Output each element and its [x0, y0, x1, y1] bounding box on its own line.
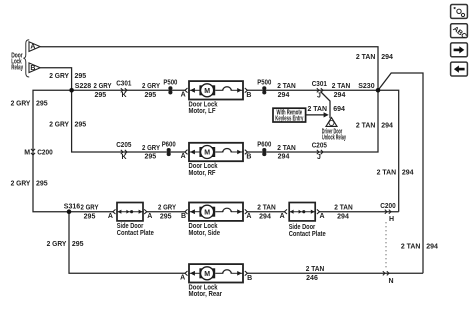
svg-text:S228: S228 [75, 83, 91, 90]
wire: S316 down to rear motor row [69, 212, 185, 274]
svg-text:C205: C205 [116, 142, 131, 149]
svg-text:2 GRY: 2 GRY [49, 73, 69, 80]
svg-text:Motor, LF: Motor, LF [189, 108, 217, 115]
label 2 TAN 294 on C200 drop [377, 169, 414, 176]
svg-text:295: 295 [144, 92, 156, 99]
door lock motor rear [189, 264, 244, 298]
door lock relay label [11, 52, 23, 71]
wire: contact plate to side motor [147, 211, 185, 213]
label 2 TAN 294 (C301 to S230) [332, 83, 351, 99]
svg-text:B: B [181, 213, 186, 220]
svg-text:2 GRY: 2 GRY [47, 241, 67, 248]
chevron rear motor right [245, 271, 248, 276]
svg-text:A: A [319, 213, 324, 220]
svg-text:Contact Plate: Contact Plate [117, 230, 154, 237]
svg-text:694: 694 [333, 106, 345, 113]
svg-text:246: 246 [306, 275, 318, 282]
door lock motor side [189, 203, 244, 237]
svg-text:2 GRY: 2 GRY [11, 100, 31, 107]
svg-text:2 GRY: 2 GRY [49, 121, 69, 128]
connector P600 (RF right) [257, 141, 271, 156]
label 2 GRY 295 (S228 to C301) [94, 83, 112, 99]
triangle connector A (door lock relay) [29, 42, 40, 52]
connector P500 (LF left) [163, 80, 177, 95]
junction S316 [67, 209, 72, 214]
wire: S230 diagonal branch to far right drop [378, 73, 423, 273]
svg-text:J: J [317, 154, 321, 161]
connector C200 pin H [380, 203, 396, 223]
svg-text:A: A [280, 213, 285, 220]
svg-text:294: 294 [334, 92, 346, 99]
svg-text:294: 294 [337, 213, 349, 220]
label 2 GRY 295 (S228 down branch) [49, 121, 86, 128]
svg-text:P600: P600 [257, 141, 271, 148]
svg-text:Unlock Relay: Unlock Relay [322, 135, 346, 142]
label 2 GRY 295 (S316 down branch) [47, 241, 84, 248]
label 2 GRY 295 (S316 to plate) [81, 205, 99, 221]
svg-text:B: B [246, 92, 251, 99]
label 2 TAN 294 (side motor to plate 2) [257, 205, 276, 221]
svg-text:2 GRY: 2 GRY [158, 205, 176, 212]
label 2 TAN 694 [308, 106, 345, 113]
svg-text:A: A [181, 91, 186, 98]
callout arrow [306, 112, 329, 117]
svg-text:A: A [147, 213, 152, 220]
wire: LF motor pin B to S230 [247, 89, 378, 91]
svg-text:2 TAN: 2 TAN [277, 83, 296, 90]
svg-text:295: 295 [75, 73, 87, 80]
svg-text:A: A [180, 275, 185, 282]
driver door unlock relay triangle [322, 118, 346, 142]
label 2 GRY 295 (C205 to P600) [142, 145, 160, 161]
chevron plate1 left [113, 209, 116, 214]
connector C301 pin K (LF row) [116, 80, 131, 99]
label 2 GRY 295 (C301 to P500) [142, 83, 160, 99]
wire: S228 to door lock motor LF pin A [72, 89, 185, 91]
wire: S228 down branch to RF motor row [72, 90, 185, 152]
chevron side motor left [185, 209, 188, 214]
svg-text:Keyless Entry: Keyless Entry [275, 116, 303, 123]
label 2 GRY 295 (plate to side motor) [158, 205, 176, 221]
svg-text:S230: S230 [358, 83, 374, 90]
svg-text:K: K [121, 154, 126, 161]
svg-text:J: J [317, 92, 321, 99]
svg-text:2 TAN: 2 TAN [306, 266, 325, 273]
chevron at RF motor pin B [245, 150, 248, 155]
svg-text:294: 294 [381, 122, 393, 129]
svg-text:2 GRY: 2 GRY [142, 145, 160, 152]
label 2 TAN 294 below S230 [356, 122, 393, 129]
svg-text:B: B [246, 154, 251, 161]
svg-text:C200: C200 [380, 203, 396, 210]
toolbar icon zoom circles [451, 5, 468, 19]
svg-text:C200: C200 [37, 149, 53, 156]
svg-text:H: H [389, 216, 394, 223]
svg-text:B: B [30, 65, 35, 72]
chevron side motor right [245, 209, 248, 214]
svg-text:N: N [388, 278, 393, 285]
junction S230 [376, 88, 381, 93]
svg-text:295: 295 [36, 181, 48, 188]
label 2 GRY 295 (left branch upper) [11, 100, 48, 107]
door lock motor RF [189, 143, 244, 177]
svg-text:S316: S316 [64, 204, 80, 211]
dashed line C200 H to N [385, 222, 387, 270]
wire: S316 row to side contact plate [69, 211, 113, 213]
svg-text:2 TAN: 2 TAN [332, 83, 351, 90]
svg-text:2 GRY: 2 GRY [94, 83, 112, 90]
wire: RF motor pin B up to S230 [247, 90, 378, 152]
label 2 GRY 295 (left branch lower) [11, 181, 48, 188]
svg-text:A: A [108, 213, 113, 220]
svg-text:294: 294 [381, 54, 393, 61]
wire: rear motor pin B to far right riser [247, 272, 423, 274]
wire: second contact plate to C200 H junction [320, 211, 399, 213]
svg-text:295: 295 [84, 213, 96, 220]
connector P600 (RF left) [162, 141, 176, 156]
chevron at LF motor pin A [185, 88, 188, 93]
toolbar icon arrow left [451, 62, 468, 76]
svg-text:P500: P500 [163, 80, 177, 87]
svg-text:C205: C205 [312, 143, 327, 150]
label 2 TAN 294 (RF right) [277, 145, 296, 161]
svg-text:295: 295 [144, 154, 156, 161]
svg-text:2 TAN: 2 TAN [277, 145, 296, 152]
wire: C301 J branch to driver door unlock relay [321, 92, 331, 119]
side door contact plate 1 [117, 203, 154, 237]
svg-text:A: A [246, 213, 251, 220]
svg-text:2 TAN: 2 TAN [334, 205, 353, 212]
connector P500 (LF right) [257, 80, 271, 95]
svg-text:Motor, Rear: Motor, Rear [189, 291, 223, 298]
junction S228 [69, 88, 74, 93]
svg-text:2 TAN: 2 TAN [356, 122, 376, 129]
toolbar icon abc [451, 24, 468, 41]
svg-text:Relay: Relay [11, 65, 23, 72]
svg-text:Contact Plate: Contact Plate [289, 231, 326, 238]
chevron rear motor left [185, 271, 188, 276]
svg-text:294: 294 [278, 154, 290, 161]
connector C301 pin J (LF row) [312, 81, 327, 99]
label 2 TAN 294 far right riser [401, 244, 438, 251]
svg-text:295: 295 [36, 100, 48, 107]
svg-text:A: A [30, 44, 35, 51]
chevron plate1 right [144, 209, 147, 214]
svg-text:295: 295 [72, 241, 84, 248]
door lock relay brace [23, 40, 29, 77]
wire: side motor to second contact plate [247, 211, 284, 213]
svg-text:2 TAN: 2 TAN [401, 244, 421, 251]
wire: S230 right branch down to C200 H [378, 90, 399, 211]
chevron at LF motor pin B [245, 88, 248, 93]
svg-text:2 GRY: 2 GRY [11, 181, 31, 188]
svg-text:294: 294 [278, 92, 290, 99]
svg-text:M: M [24, 149, 30, 156]
svg-text:Motor, Side: Motor, Side [189, 230, 221, 237]
connector C200 pin M [24, 149, 53, 156]
svg-text:295: 295 [160, 213, 172, 220]
svg-text:P600: P600 [162, 141, 176, 148]
svg-text:Motor, RF: Motor, RF [189, 170, 217, 177]
svg-text:A: A [181, 153, 186, 160]
door lock motor LF [189, 81, 244, 115]
toolbar icon arrow right [451, 43, 468, 57]
connector C205 pin J (RF row) [312, 143, 327, 161]
label 2 TAN 294 top vertical [356, 54, 393, 61]
svg-text:2 TAN: 2 TAN [257, 205, 276, 212]
svg-text:294: 294 [426, 244, 438, 251]
svg-text:294: 294 [402, 169, 414, 176]
label 2 TAN 294 (plate 2 to C200) [334, 205, 353, 221]
svg-text:2 GRY: 2 GRY [81, 205, 99, 212]
chevron plate2 right [317, 209, 320, 214]
svg-text:295: 295 [75, 121, 87, 128]
with remote keyless entry callout box [273, 108, 306, 122]
label 2 TAN 246 (rear) [306, 266, 325, 282]
chevron at RF motor pin A [185, 150, 188, 155]
triangle connector B (door lock relay) [29, 63, 40, 73]
svg-text:K: K [121, 92, 126, 99]
wire: relay B down to S228 [40, 68, 71, 91]
connector C200 pin N [383, 271, 394, 285]
svg-text:295: 295 [94, 92, 106, 99]
chevron plate2 left [284, 209, 287, 214]
svg-text:2 TAN: 2 TAN [356, 54, 376, 61]
svg-text:C301: C301 [116, 80, 131, 87]
label 2 TAN 294 (P500 to C301 J) [277, 83, 296, 99]
svg-text:2 GRY: 2 GRY [142, 83, 160, 90]
wire: relay A to S230 top run [40, 47, 378, 91]
wire: S228 left branch down to S316 [33, 90, 72, 211]
svg-text:B: B [247, 275, 252, 282]
label 2 GRY 295 on relay B drop [49, 73, 86, 80]
svg-text:294: 294 [259, 213, 271, 220]
side door contact plate 2 [289, 203, 326, 239]
svg-text:P500: P500 [257, 80, 271, 87]
svg-text:2 TAN: 2 TAN [308, 106, 328, 113]
svg-text:2 TAN: 2 TAN [377, 169, 397, 176]
svg-text:C301: C301 [312, 81, 327, 88]
connector C205 pin K (RF row) [116, 142, 131, 161]
